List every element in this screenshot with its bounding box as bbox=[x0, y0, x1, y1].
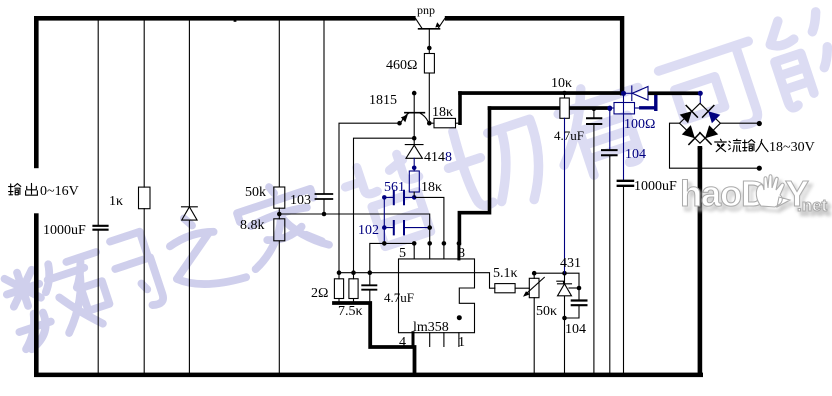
svg-text:50κ: 50κ bbox=[536, 304, 557, 319]
node 102 left bbox=[382, 225, 387, 230]
svg-text:431: 431 bbox=[560, 256, 581, 271]
svg-text:8.8k: 8.8k bbox=[240, 218, 265, 233]
capacitor 102 bbox=[384, 221, 429, 234]
svg-text:18κ: 18κ bbox=[432, 105, 453, 120]
resistor 7.5k bbox=[349, 273, 358, 302]
wire bus2 thick y108 right part bbox=[569, 106, 610, 110]
svg-text:8: 8 bbox=[458, 246, 465, 261]
capacitor 4.7uF right bbox=[587, 107, 601, 373]
node 7.5k top bbox=[351, 270, 356, 275]
resistor 18k horizontal bbox=[429, 118, 460, 127]
wire column 50k/8.8k bbox=[278, 21, 280, 373]
wire left border lower (thick) bbox=[34, 213, 39, 377]
svg-text:18~30V: 18~30V bbox=[769, 140, 815, 155]
wire navy thick elbow 100ohm bbox=[641, 93, 656, 109]
bridge diode bottom-right bbox=[700, 125, 718, 144]
node AC terminal 2 bbox=[757, 166, 762, 171]
resistor 5.1k bbox=[495, 284, 530, 293]
bridge rectifier outline bbox=[680, 103, 721, 143]
diode D7 bbox=[624, 86, 649, 101]
node 2ohm top bbox=[337, 270, 342, 275]
resistor 460ohm bbox=[424, 48, 434, 123]
wire thick elbow 18k to bus1 bbox=[458, 93, 462, 123]
node 431 anode bbox=[562, 316, 567, 321]
wire thick vertical right of top bus bbox=[620, 16, 624, 95]
node pin row 458 bbox=[457, 241, 462, 246]
node 103 bottom bbox=[322, 212, 327, 217]
diode D5 bbox=[182, 207, 198, 220]
svg-text:104: 104 bbox=[565, 322, 586, 337]
wire top bus right (thick) bbox=[445, 16, 624, 21]
watermark 1: shuma zhijia bbox=[1, 175, 329, 351]
potentiometer 50k bbox=[523, 273, 544, 373]
wire top bus nub bbox=[234, 20, 237, 22]
resistor 50k bbox=[274, 187, 285, 208]
wire column 429 down to IC bbox=[429, 228, 431, 259]
svg-text:2Ω: 2Ω bbox=[311, 286, 328, 301]
node 102 right bbox=[427, 225, 432, 230]
node ref 564 bbox=[562, 271, 567, 276]
capacitor 561 bbox=[384, 191, 414, 204]
svg-text:102: 102 bbox=[358, 223, 379, 238]
svg-text:100Ω: 100Ω bbox=[624, 117, 655, 132]
resistor 1k bbox=[139, 187, 151, 209]
svg-text:50k: 50k bbox=[245, 185, 266, 200]
capacitor 1000uF right bbox=[618, 181, 633, 373]
wire pin5 row bbox=[370, 243, 414, 272]
capacitor 1000uF output bbox=[94, 226, 108, 230]
node pin row 444 bbox=[442, 241, 447, 246]
capacitor 104 bottom bbox=[565, 288, 587, 318]
svg-text:1815: 1815 bbox=[369, 93, 397, 108]
node bridge top elbow bbox=[698, 91, 703, 96]
svg-text:104: 104 bbox=[625, 147, 646, 162]
svg-text:4148: 4148 bbox=[424, 150, 452, 165]
resistor 8.8k bbox=[274, 219, 285, 241]
svg-text:460Ω: 460Ω bbox=[386, 58, 417, 73]
wire top bus left (thick) bbox=[34, 16, 416, 21]
svg-text:5: 5 bbox=[399, 246, 406, 261]
node pin row 414 bbox=[412, 241, 417, 246]
resistor 10k bbox=[560, 91, 569, 274]
transistor Q2 1815 bbox=[401, 91, 428, 138]
wire input row y273 bbox=[339, 273, 495, 289]
capacitor 104 right bbox=[602, 107, 617, 373]
node 1815 collector / 460 bottom bbox=[427, 121, 432, 126]
svg-text:4: 4 bbox=[399, 335, 406, 350]
wire IC bottom pins bbox=[430, 333, 459, 347]
node pnp collector bbox=[427, 46, 432, 51]
wire elbow down to bridge bbox=[699, 93, 701, 103]
regulator U2 431 bbox=[557, 273, 579, 318]
wire ref row y273 bbox=[534, 273, 579, 288]
svg-text:10κ: 10κ bbox=[551, 76, 572, 91]
diode D6 4148 bbox=[405, 138, 423, 171]
wire base row to 7.5k column bbox=[354, 138, 415, 273]
node pin1 mark bbox=[457, 315, 462, 320]
node 18k bottom / 561 junction bbox=[412, 195, 417, 200]
wire bus2 thick y108 bbox=[488, 106, 560, 110]
node pin row 429 bbox=[427, 241, 432, 246]
node 50k-8.8k junction bbox=[277, 212, 282, 217]
svg-text:7.5κ: 7.5κ bbox=[338, 304, 363, 319]
wire navy column 384 bbox=[383, 197, 385, 243]
node base row bbox=[412, 136, 417, 141]
transistor Q1 pnp bbox=[416, 19, 445, 49]
wire column C1 1000uF output cap bbox=[97, 21, 99, 373]
wire column diode D5 bbox=[188, 21, 190, 373]
svg-text:4.7uF: 4.7uF bbox=[554, 128, 584, 143]
wire bottom bus (thick) bbox=[34, 373, 703, 378]
svg-text:lm358: lm358 bbox=[413, 320, 449, 335]
wire bus2 elbow down to pin8 jog bbox=[459, 108, 489, 243]
bridge diode bottom-left bbox=[682, 125, 700, 144]
capacitor 103 bbox=[316, 194, 333, 199]
wire navy column 623 bbox=[623, 93, 625, 180]
svg-text:1000uF: 1000uF bbox=[43, 223, 86, 238]
node 4.7uF top bbox=[368, 270, 373, 275]
wire column 103 cap bbox=[323, 21, 325, 215]
bridge diode top-left bbox=[680, 106, 698, 124]
wire IC pin4 thick bbox=[412, 333, 415, 347]
wire IC pin8 thick bbox=[457, 243, 460, 259]
resistor 2ohm bbox=[334, 273, 343, 302]
node 4148 bottom bbox=[412, 166, 417, 171]
node 1815 emitter bbox=[397, 121, 402, 126]
bridge diode top-right bbox=[703, 106, 721, 124]
label AC input 18~30V bbox=[715, 139, 815, 155]
label output 0~16V bbox=[9, 183, 79, 199]
watermark 2: yiqie jie keneng bbox=[341, 0, 832, 253]
wire 561 junction to pin column bbox=[414, 192, 444, 243]
wire feedback row y214 bbox=[279, 214, 429, 228]
svg-text:5.1κ: 5.1κ bbox=[493, 266, 518, 281]
wire thick ground path resistors bbox=[334, 303, 415, 373]
node diode junction navy bbox=[621, 91, 626, 96]
node pin row 384 bbox=[382, 241, 387, 246]
node 561 left bbox=[382, 195, 387, 200]
op-amp U1 lm358 bbox=[399, 259, 475, 333]
svg-text:pnp: pnp bbox=[417, 3, 435, 17]
capacitor 4.7uF left bbox=[362, 273, 376, 302]
node AC terminal 1 bbox=[757, 121, 762, 126]
wire bus1 thick y93 bbox=[458, 91, 623, 95]
wire left border upper (thick) bbox=[34, 16, 39, 168]
svg-text:0~16V: 0~16V bbox=[40, 184, 79, 199]
resistor 100ohm bbox=[607, 103, 640, 114]
wire emitter to 2ohm column bbox=[339, 123, 400, 273]
svg-text:561: 561 bbox=[384, 180, 405, 195]
wire AC line 1 bbox=[720, 122, 759, 124]
svg-text:103: 103 bbox=[290, 193, 311, 208]
node ref tab bbox=[577, 286, 582, 291]
resistor 18k vertical bbox=[409, 171, 419, 192]
wire column R 1k bbox=[143, 21, 145, 373]
wire bridge output vertical (thick) bbox=[698, 146, 703, 377]
svg-text:4.7uF: 4.7uF bbox=[384, 290, 414, 305]
wire diode to bridge (thick) bbox=[648, 91, 701, 95]
svg-text:18κ: 18κ bbox=[421, 180, 442, 195]
svg-text:1: 1 bbox=[458, 335, 465, 350]
wire IC top pins bbox=[414, 243, 444, 259]
wire AC line 2 bbox=[670, 123, 760, 168]
node pot top bbox=[532, 271, 537, 276]
svg-text:1κ: 1κ bbox=[109, 194, 123, 209]
node bridge output bbox=[698, 146, 703, 151]
wire 431 to ground bbox=[564, 318, 566, 373]
svg-text:1000uF: 1000uF bbox=[634, 179, 677, 194]
